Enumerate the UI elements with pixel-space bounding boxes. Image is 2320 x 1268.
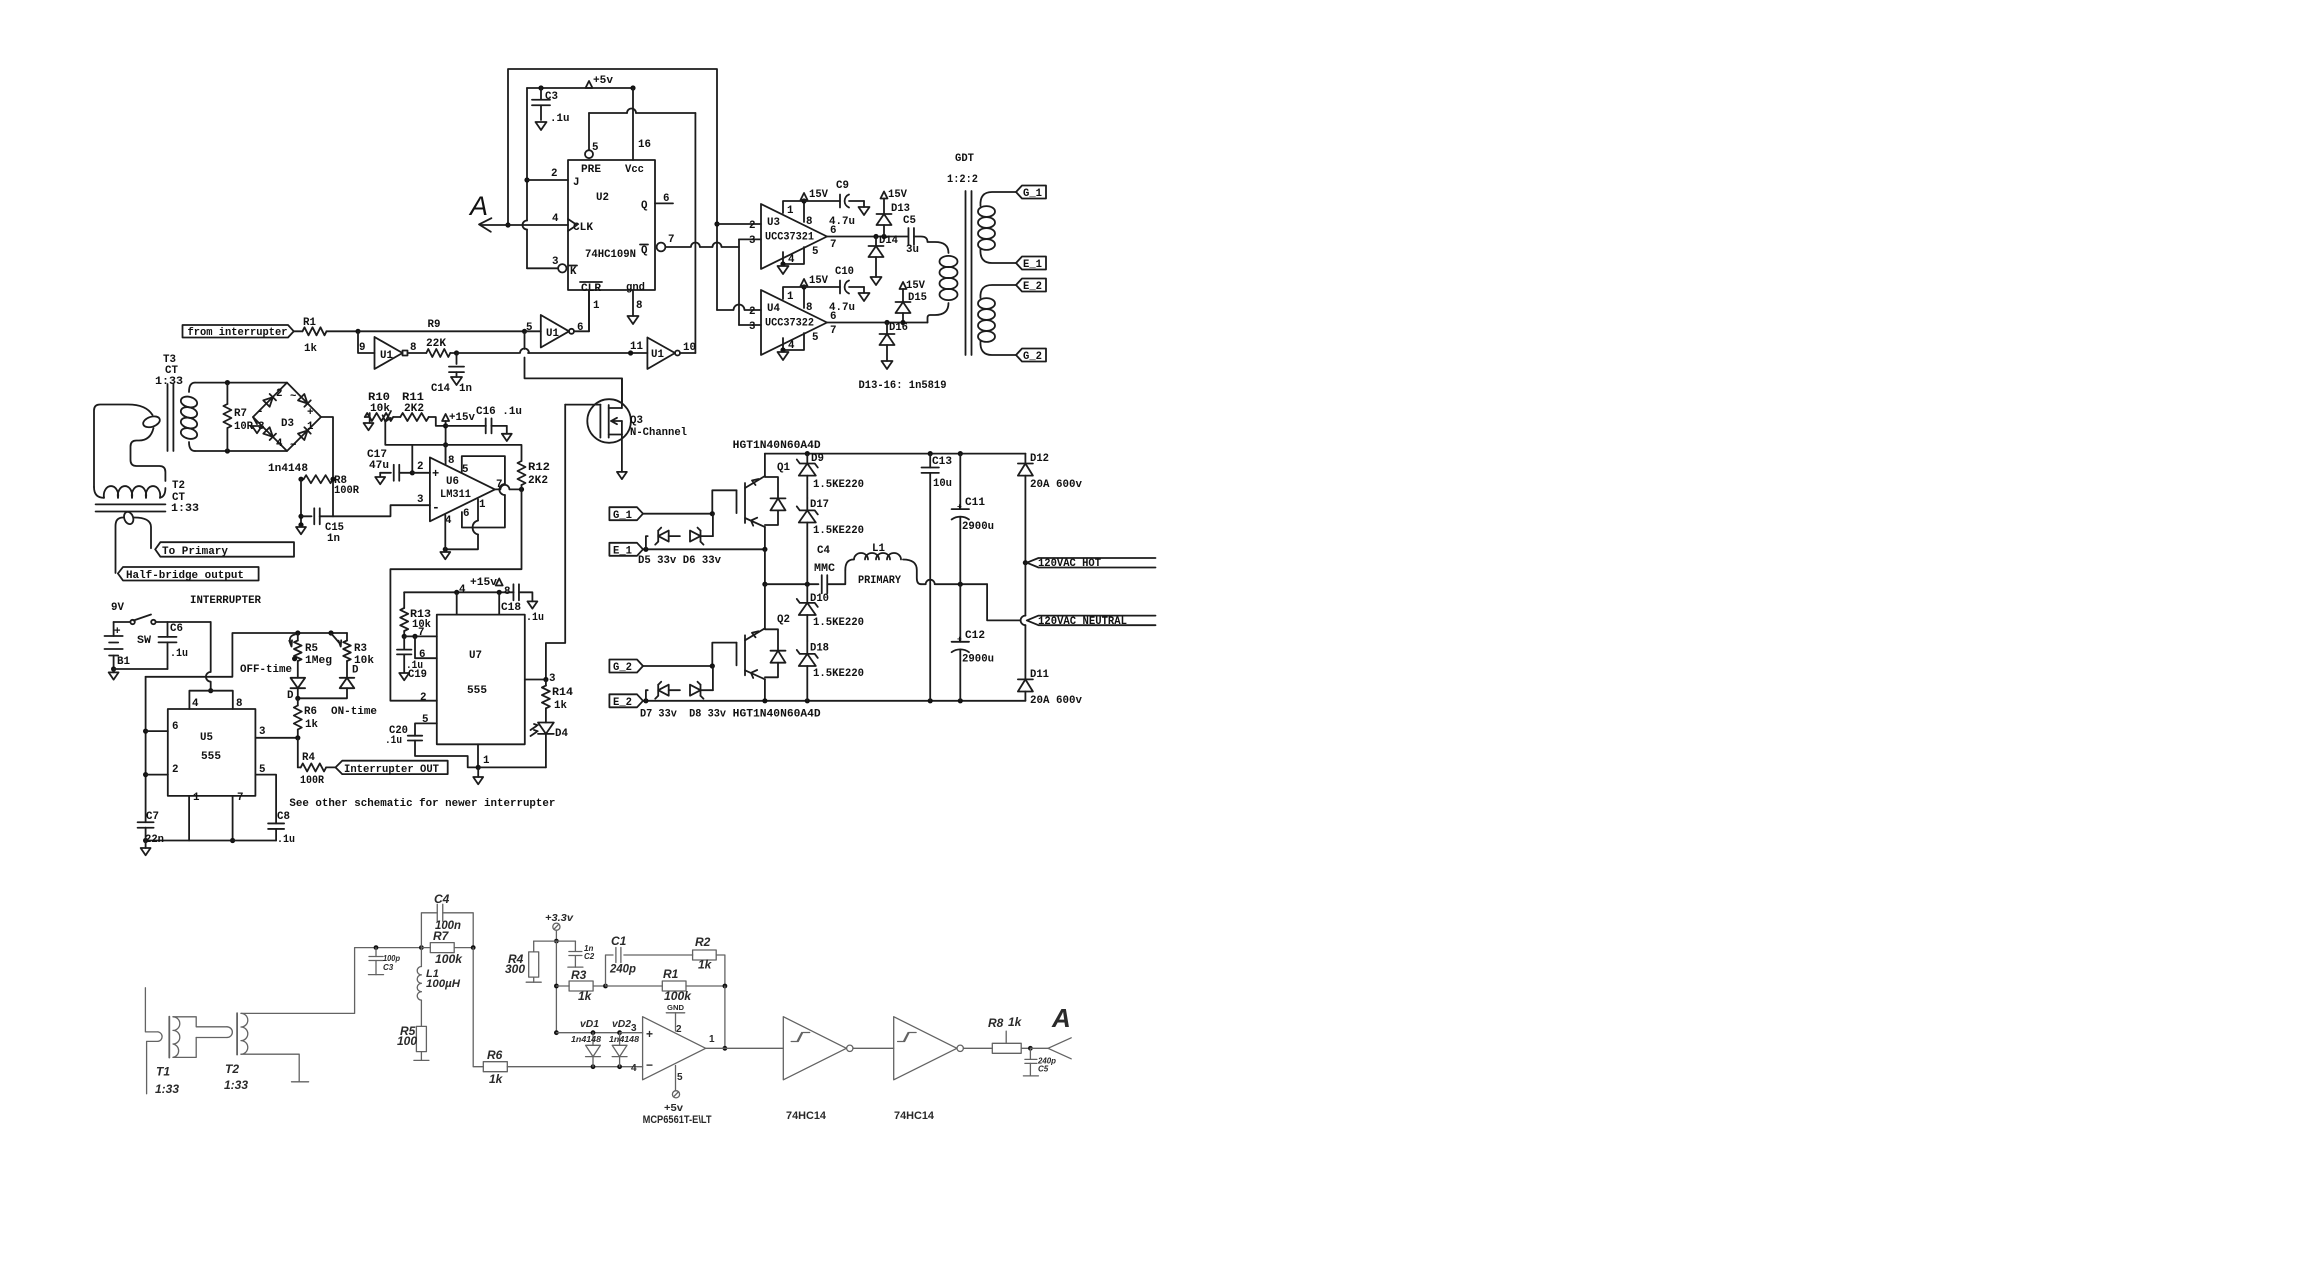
capacitor C3 100p — [375, 948, 377, 957]
svg-text:C8: C8 — [277, 811, 290, 823]
svg-text:74HC109N: 74HC109N — [585, 249, 636, 261]
svg-text:100k: 100k — [664, 989, 692, 1003]
R5 wiper hook — [289, 635, 295, 647]
T2 primary winding — [94, 487, 104, 498]
svg-text:4: 4 — [552, 213, 559, 225]
wire CLK from A arrow — [481, 224, 568, 226]
svg-text:1:33: 1:33 — [224, 1078, 248, 1092]
svg-text:6: 6 — [577, 322, 583, 334]
svg-text:3: 3 — [417, 494, 423, 506]
svg-text:4.7u: 4.7u — [829, 302, 855, 314]
wire J/K rail (x527) — [526, 88, 528, 221]
svg-text:C10: C10 — [835, 266, 854, 278]
svg-text:74HC14: 74HC14 — [786, 1110, 827, 1122]
svg-text:C1: C1 — [611, 934, 627, 948]
svg-text:5: 5 — [422, 714, 428, 726]
wire E_2 bottom rail — [643, 700, 1025, 702]
flag G_1 — [1016, 186, 1046, 199]
capacitor C10 4.7u — [804, 286, 840, 288]
svg-text:C9: C9 — [836, 180, 849, 192]
svg-text:8: 8 — [806, 216, 812, 228]
wire feedback column — [724, 986, 726, 1048]
svg-text:3: 3 — [749, 235, 755, 247]
svg-text:11: 11 — [630, 341, 643, 353]
U5 pin6 wire — [146, 730, 168, 732]
svg-text:from interrupter: from interrupter — [188, 327, 288, 339]
svg-text:L1: L1 — [872, 543, 885, 555]
svg-text:20A 600v: 20A 600v — [1030, 695, 1083, 707]
power +15v at U7 — [496, 579, 503, 586]
ground rail below U5 — [146, 840, 277, 842]
wire A-line top loop (CLK node to U3/U4 inputs) — [508, 69, 717, 310]
svg-text:100k: 100k — [435, 952, 463, 966]
T1 core — [168, 1017, 170, 1058]
svg-text:1: 1 — [193, 792, 200, 804]
diode vD2 1n4148 — [619, 1033, 621, 1046]
svg-text:D5 33v D6 33v: D5 33v D6 33v — [638, 555, 722, 567]
wire J pin2 — [527, 179, 568, 181]
capacitor C14 1n — [456, 353, 458, 364]
node A arrow flag — [479, 218, 491, 232]
wire branch down to Q3 drain — [524, 331, 526, 349]
diode D14 1n5819 — [875, 237, 877, 247]
svg-text:3: 3 — [631, 1023, 637, 1034]
comparator pin5 +5v stub — [675, 1066, 677, 1091]
IC U2 74HC109N box — [568, 160, 655, 290]
U5 pin1 wire — [188, 796, 190, 841]
svg-text:2: 2 — [420, 692, 426, 704]
U2 pin4 CLK triangle marker — [568, 219, 577, 231]
svg-text:R3: R3 — [571, 968, 587, 982]
svg-text:Half-bridge output: Half-bridge output — [126, 570, 244, 582]
svg-text:U1: U1 — [651, 349, 664, 361]
svg-text:U6: U6 — [446, 476, 459, 488]
svg-text:C5: C5 — [1038, 1065, 1049, 1074]
svg-text:D13-16: 1n5819: D13-16: 1n5819 — [859, 380, 947, 392]
resistor R8 1k — [963, 1047, 992, 1049]
svg-text:2: 2 — [417, 461, 423, 473]
wire +input node — [411, 445, 413, 473]
ground below C15 node — [296, 527, 306, 534]
svg-text:1k: 1k — [578, 989, 593, 1003]
svg-text:-: - — [432, 500, 440, 515]
svg-text:+: + — [646, 1027, 653, 1041]
svg-text:120VAC HOT: 120VAC HOT — [1038, 558, 1102, 570]
svg-text:1: 1 — [483, 755, 490, 767]
svg-text:1.5KE220: 1.5KE220 — [813, 617, 864, 629]
svg-text:Q1: Q1 — [777, 462, 791, 474]
wire E_1 emitter rail — [643, 548, 765, 550]
svg-text:CLR: CLR — [581, 283, 602, 295]
svg-text:PRE: PRE — [581, 164, 602, 176]
ground below Q3 source — [617, 472, 627, 479]
transformer T1 primary single turn — [145, 988, 158, 1032]
svg-text:1k: 1k — [489, 1072, 504, 1086]
svg-text:R6: R6 — [487, 1048, 503, 1062]
svg-text:HGT1N40N60A4D: HGT1N40N60A4D — [733, 709, 822, 721]
svg-text:+3.3v: +3.3v — [545, 913, 575, 924]
svg-text:10R: 10R — [234, 421, 253, 433]
GDT secondary 1 winding — [980, 192, 1016, 206]
svg-text:1n4148: 1n4148 — [571, 1035, 602, 1044]
svg-text:47u: 47u — [369, 460, 389, 472]
svg-text:D16: D16 — [889, 322, 908, 334]
ground at C17 left — [379, 473, 381, 476]
svg-text:15V: 15V — [809, 189, 828, 201]
svg-text:C6: C6 — [170, 623, 183, 635]
wire +15v rail to R12 — [412, 444, 445, 446]
capacitor C4 MMC — [821, 575, 823, 593]
zener D7 33v — [646, 690, 648, 701]
svg-text:7: 7 — [237, 792, 243, 804]
resistor R8 100R — [304, 475, 333, 483]
capacitor C17 47u — [380, 472, 391, 474]
svg-text:6: 6 — [463, 508, 469, 520]
R10 wiper arrow to +input net — [385, 411, 391, 422]
ground after C16 — [502, 434, 512, 441]
svg-text:U1: U1 — [380, 350, 393, 362]
svg-text:B1: B1 — [117, 656, 131, 668]
resistor R1 1k — [294, 330, 303, 332]
wire R9 net to U1 pin5 — [358, 330, 525, 332]
U5 pin7 wire — [232, 796, 234, 841]
svg-text:T1: T1 — [156, 1065, 170, 1079]
T3 core — [167, 384, 169, 451]
U2 pin7 Qbar bubble and output wire — [657, 243, 666, 252]
R10 left end to ground — [365, 413, 370, 423]
U6 pin8 wire — [445, 445, 447, 465]
svg-text:C14: C14 — [431, 383, 450, 395]
svg-text:1: 1 — [593, 300, 600, 312]
svg-text:U7: U7 — [469, 650, 482, 662]
svg-text:5: 5 — [812, 246, 818, 258]
svg-text:2K2: 2K2 — [404, 403, 424, 415]
svg-text:3: 3 — [549, 673, 555, 685]
svg-text:R8: R8 — [988, 1016, 1004, 1030]
wire R6 to comparator -input — [507, 1066, 642, 1068]
T2 secondary winding — [241, 1013, 248, 1054]
svg-text:U4: U4 — [767, 303, 780, 315]
svg-text:C3: C3 — [545, 91, 558, 103]
wire input to U1 pin9 — [358, 331, 375, 353]
svg-text:1: 1 — [479, 499, 486, 511]
svg-text:C4: C4 — [817, 545, 830, 557]
svg-text:1n: 1n — [459, 383, 472, 395]
transistor Q2 IGBT — [764, 584, 766, 628]
flag from interrupter — [183, 325, 294, 338]
svg-text:U5: U5 — [200, 732, 213, 744]
U5 pin5 wire to C8 — [255, 775, 276, 824]
ground below D14 — [871, 277, 882, 285]
U3 gnd bracket pins 4,5 — [783, 247, 804, 264]
T1 secondary leads to T2 — [173, 1017, 227, 1027]
svg-text:G_2: G_2 — [613, 662, 632, 674]
wire GDT primary bottom to U4 output — [928, 303, 949, 323]
svg-text:A: A — [1051, 1003, 1071, 1033]
inverter U1 (pins 5-6) — [541, 315, 569, 348]
svg-text:1.5KE220: 1.5KE220 — [813, 479, 864, 491]
flag E_2 — [1016, 279, 1046, 292]
svg-text:2: 2 — [276, 388, 282, 400]
wire 3.3v center vertical — [555, 941, 557, 1033]
svg-text:100R: 100R — [334, 485, 359, 497]
svg-text:ON-time: ON-time — [331, 706, 377, 718]
svg-text:4.7u: 4.7u — [829, 216, 855, 228]
ground after C9 — [859, 207, 870, 215]
svg-text:See other schematic for newer: See other schematic for newer interrupte… — [289, 798, 555, 810]
gate lead Q1 — [712, 490, 736, 513]
power 15V at U3 — [801, 193, 808, 200]
svg-text:C13: C13 — [932, 456, 952, 468]
wire T3 secondary bottom to bridge — [195, 450, 287, 452]
svg-text:G_1: G_1 — [1023, 188, 1042, 200]
wire K pin3 — [527, 267, 558, 269]
potentiometer R10 10k — [365, 413, 393, 421]
svg-text:E_1: E_1 — [613, 546, 632, 558]
resistor R7 10R — [226, 383, 228, 404]
U6 pin5/6 balance bracket — [462, 456, 505, 484]
svg-text:D18: D18 — [810, 643, 829, 655]
svg-text:7: 7 — [418, 627, 424, 639]
wire pin1 rail to D4 — [478, 766, 546, 768]
U4 VDD bracket pins 1,8 — [783, 287, 804, 308]
wire +15v vertical to pin8 and rails — [445, 421, 447, 461]
ground below D16 — [882, 361, 893, 369]
gate lead Q2 — [712, 643, 736, 666]
svg-text:74HC14: 74HC14 — [894, 1110, 935, 1122]
svg-text:R7: R7 — [433, 929, 450, 943]
U5 pin2 wire — [146, 774, 168, 776]
U5 pins 4,8 bracket — [189, 691, 232, 709]
svg-text:5: 5 — [677, 1072, 683, 1083]
svg-text:J: J — [573, 177, 579, 189]
svg-text:1k: 1k — [1008, 1015, 1023, 1029]
svg-text:3u: 3u — [906, 244, 919, 256]
wire U1 pin6 to CLR — [574, 330, 589, 332]
capacitor C16 .1u — [446, 425, 486, 427]
svg-text:1:33: 1:33 — [155, 376, 183, 388]
T2 secondary single-turn — [116, 518, 124, 574]
U7 pin8 wire — [498, 592, 500, 614]
svg-text:C7: C7 — [146, 811, 159, 823]
wire T3 secondary top to bridge — [195, 382, 287, 384]
capacitor C2 1n — [574, 941, 576, 951]
power +5v — [586, 81, 593, 88]
U7 pin6 wire — [415, 636, 437, 658]
resistor R6 1k — [297, 698, 299, 705]
capacitor C6 .1u — [167, 622, 169, 637]
capacitor C18 .1u — [512, 584, 514, 600]
wire R11 to +15v node — [429, 417, 446, 426]
svg-text:LM311: LM311 — [440, 489, 471, 501]
wire comparator output — [706, 1047, 725, 1049]
svg-text:3: 3 — [749, 321, 755, 333]
svg-text:HGT1N40N60A4D: HGT1N40N60A4D — [733, 440, 822, 452]
resistor 22K — [408, 352, 427, 354]
svg-text:1:2:2: 1:2:2 — [947, 174, 978, 186]
svg-text:MCP6561T-E\LT: MCP6561T-E\LT — [643, 1114, 712, 1126]
zener D6 33v — [669, 535, 680, 537]
svg-text:5: 5 — [259, 764, 265, 776]
switch SW — [114, 621, 131, 623]
svg-text:100µH: 100µH — [426, 978, 461, 990]
R3 wiper hook — [331, 634, 341, 647]
svg-text:D15: D15 — [908, 292, 927, 304]
inverter U1 (pins 11-10) — [647, 338, 675, 370]
svg-text:GND: GND — [667, 1005, 684, 1012]
svg-text:+: + — [957, 636, 962, 645]
svg-text:555: 555 — [467, 685, 487, 697]
svg-text:1k: 1k — [305, 719, 318, 731]
svg-text:16: 16 — [638, 139, 651, 151]
svg-text:R2: R2 — [695, 935, 711, 949]
T2 core — [236, 1013, 238, 1054]
svg-text:R14: R14 — [552, 687, 574, 699]
comparator MCP6561 triangle — [643, 1017, 706, 1080]
wire R13 rail down — [403, 592, 405, 608]
svg-text:.1u: .1u — [277, 834, 295, 846]
svg-text:9: 9 — [359, 342, 365, 354]
svg-text:Q2: Q2 — [777, 614, 790, 626]
wire U3 output node — [827, 236, 908, 238]
svg-text:1Meg: 1Meg — [305, 655, 332, 667]
wire midpoint to C11/C12 node and neutral — [921, 583, 925, 585]
wire T2 bottom lead to ground — [241, 1054, 299, 1082]
svg-text:C18: C18 — [501, 602, 521, 614]
wire R8 left node down to C15 and ground — [300, 479, 302, 525]
svg-text:240p: 240p — [609, 962, 636, 976]
svg-text:1: 1 — [787, 291, 794, 303]
flag G_2 input — [609, 660, 643, 673]
svg-text:R7: R7 — [234, 408, 247, 420]
svg-text:15V: 15V — [888, 189, 907, 201]
svg-text:2: 2 — [749, 306, 755, 318]
capacitor C8 .1u — [268, 822, 284, 824]
U2 pin 16 Vcc wire — [632, 88, 634, 160]
capacitor C9 4.7u — [804, 200, 840, 202]
svg-text:G_1: G_1 — [613, 510, 632, 522]
resistor R2 1k — [693, 950, 717, 960]
svg-text:C19: C19 — [408, 669, 427, 681]
svg-text:5: 5 — [526, 322, 532, 334]
U6 pin4 wire and ground — [444, 515, 446, 549]
wire Qbar branch to U3 pin3 / U4 pin3 — [738, 239, 740, 325]
svg-text:1k: 1k — [554, 700, 567, 712]
svg-text:8: 8 — [448, 455, 454, 467]
U4 gnd bracket pins 4,5 — [783, 333, 804, 350]
wire T2 top lead to input node — [241, 948, 421, 1014]
svg-text:T2: T2 — [225, 1062, 239, 1076]
wire timing node vertical — [145, 677, 147, 822]
wire bridge plus to R8 — [321, 417, 333, 516]
resistor R4 100R — [297, 738, 299, 768]
svg-text:+5v: +5v — [664, 1103, 683, 1114]
svg-text:.1u: .1u — [526, 612, 544, 624]
svg-text:2900u: 2900u — [962, 521, 994, 533]
svg-text:15V: 15V — [809, 275, 828, 287]
wire U6 output down to U7 pin2 — [390, 489, 521, 700]
svg-text:R6: R6 — [304, 706, 317, 718]
svg-text:−: − — [646, 1058, 653, 1072]
bridge diode bottom-right — [298, 427, 311, 440]
wire Vcc drop with hop to U5 pins 4,8 — [210, 622, 212, 672]
diode D below R5 — [297, 661, 299, 678]
U2 pin1 CLR wire — [588, 290, 590, 331]
U3 VDD bracket pins 1,8 — [783, 201, 804, 222]
ground after C10 — [859, 293, 870, 301]
svg-text:1:33: 1:33 — [171, 503, 199, 515]
svg-text:+: + — [432, 467, 439, 481]
svg-text:R1: R1 — [663, 967, 679, 981]
ground below C3 — [536, 122, 547, 130]
svg-text:+: + — [957, 503, 962, 512]
svg-text:2900u: 2900u — [962, 654, 994, 666]
wire between inverters — [853, 1047, 894, 1049]
svg-text:6: 6 — [663, 193, 669, 205]
svg-text:.1u: .1u — [170, 648, 188, 660]
svg-text:C5: C5 — [903, 215, 916, 227]
wire timing node rail — [146, 633, 347, 677]
svg-text:C2: C2 — [584, 952, 595, 961]
comparator pin2 GND stub — [675, 1013, 677, 1031]
svg-text:2: 2 — [749, 220, 755, 232]
resistor R4 300 — [533, 941, 535, 952]
svg-text:7: 7 — [830, 325, 836, 337]
wire C6 bottom to battery — [114, 668, 168, 670]
capacitor C3 — [540, 88, 542, 99]
wire +15v rail above U7 — [404, 591, 513, 593]
svg-text:E_2: E_2 — [1023, 281, 1042, 293]
wire U3 pin2 from A-line — [717, 223, 761, 225]
IC U5 555 box — [168, 709, 256, 796]
svg-text:1n4148: 1n4148 — [609, 1035, 640, 1044]
U2 pin6 Q output wire — [655, 202, 673, 204]
wire U4 pin2 from A-line with hop over Qbar branch — [717, 309, 733, 311]
svg-text:vD2: vD2 — [612, 1019, 631, 1030]
capacitor C15 1n — [301, 515, 312, 517]
svg-text:D17: D17 — [810, 499, 829, 511]
svg-text:G_2: G_2 — [1023, 351, 1042, 363]
svg-text:555: 555 — [201, 751, 221, 763]
svg-text:Q: Q — [641, 200, 648, 212]
resistor R12 2K2 — [518, 461, 526, 485]
U2 pin 5 PRE bubble and wire — [585, 150, 593, 158]
wire +5v rail above U2 — [527, 87, 633, 89]
diode D11 20A 600v and neutral hop — [1024, 563, 1026, 616]
node A output arrow — [1030, 1047, 1048, 1049]
svg-text:C16 .1u: C16 .1u — [476, 406, 522, 418]
wire 22K node to U1 pin11 with hop — [457, 352, 520, 354]
svg-text:A: A — [468, 191, 488, 221]
svg-text:4: 4 — [459, 584, 466, 596]
svg-text:5: 5 — [592, 142, 598, 154]
svg-text:+15v: +15v — [449, 412, 476, 424]
bridge diode top-right — [298, 394, 311, 407]
pot R3 10k ON-time — [346, 633, 348, 641]
U7 pin3 wire — [525, 679, 546, 681]
svg-text:D13: D13 — [891, 203, 910, 215]
svg-text:.1u: .1u — [385, 735, 402, 747]
svg-text:100p: 100p — [383, 954, 400, 963]
svg-text:vD1: vD1 — [580, 1019, 599, 1030]
svg-text:PRIMARY: PRIMARY — [858, 575, 901, 587]
svg-text:10k: 10k — [370, 403, 391, 415]
zener D5 33v — [646, 536, 648, 549]
ground at bridge minus — [253, 417, 257, 424]
bridge diode top-left — [263, 394, 276, 407]
svg-text:5: 5 — [462, 464, 468, 476]
T3 primary single-turn winding — [94, 405, 153, 488]
